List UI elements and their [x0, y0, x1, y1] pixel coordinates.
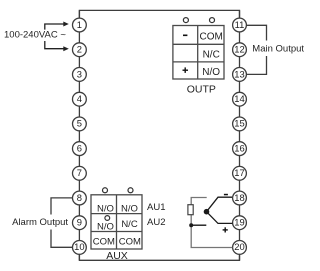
svg-text:14: 14	[234, 93, 244, 104]
svg-text:OUTP: OUTP	[187, 83, 216, 95]
svg-text:N/O: N/O	[97, 204, 114, 215]
svg-text:Alarm Output: Alarm Output	[12, 217, 68, 228]
svg-text:3: 3	[77, 68, 82, 79]
svg-text:16: 16	[234, 142, 244, 153]
svg-text:11: 11	[235, 19, 245, 30]
svg-text:20: 20	[234, 241, 244, 252]
svg-text:Main Output: Main Output	[252, 44, 304, 55]
svg-text:10: 10	[74, 241, 84, 252]
svg-text:AU1: AU1	[147, 202, 165, 213]
svg-text:17: 17	[234, 167, 244, 178]
svg-text:9: 9	[77, 217, 82, 228]
svg-text:5: 5	[77, 118, 82, 129]
svg-text:AU2: AU2	[147, 217, 165, 228]
svg-text:COM: COM	[200, 31, 223, 42]
svg-text:2: 2	[77, 44, 82, 55]
svg-text:7: 7	[77, 167, 82, 178]
svg-text:18: 18	[234, 192, 244, 203]
svg-text:6: 6	[77, 142, 82, 153]
svg-text:8: 8	[77, 192, 82, 203]
svg-text:4: 4	[77, 93, 82, 104]
svg-text:COM: COM	[119, 237, 141, 248]
svg-text:N/C: N/C	[121, 219, 138, 230]
svg-text:N/O: N/O	[202, 67, 220, 78]
svg-text:N/O: N/O	[121, 204, 138, 215]
svg-text:AUX: AUX	[106, 250, 128, 262]
svg-text:N/C: N/C	[203, 49, 220, 60]
svg-text:N/O: N/O	[97, 221, 114, 232]
svg-text:15: 15	[234, 118, 244, 129]
svg-text:19: 19	[234, 217, 244, 228]
svg-text:100-240VAC ~: 100-240VAC ~	[4, 29, 66, 40]
svg-text:13: 13	[234, 68, 244, 79]
svg-text:12: 12	[234, 44, 244, 55]
svg-text:COM: COM	[93, 237, 115, 248]
svg-text:1: 1	[77, 19, 82, 30]
